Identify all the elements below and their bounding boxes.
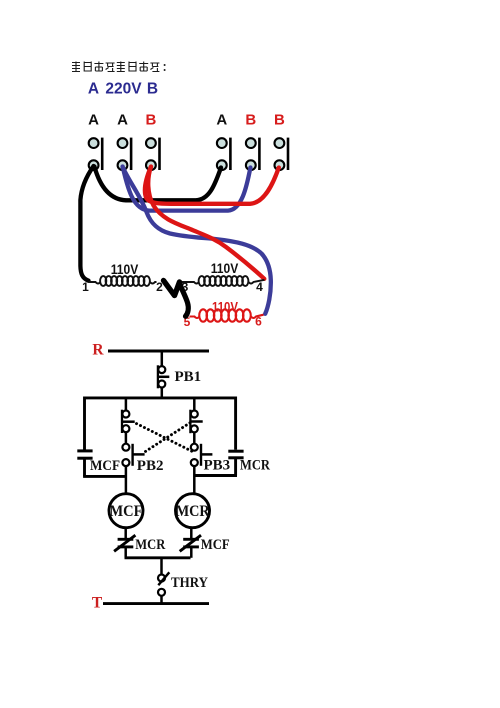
- wire T line: [103, 602, 209, 605]
- svg-text:MCF: MCF: [201, 537, 230, 553]
- wire PB2 to coil MCF: [125, 466, 128, 494]
- wire drop to THRY: [160, 558, 163, 574]
- contact MCF holding (capacitor style): [77, 397, 92, 477]
- svg-text:PB1: PB1: [175, 369, 202, 385]
- coil MCF: [109, 494, 143, 528]
- wire bottom right join: [194, 474, 237, 477]
- svg-text:MCR: MCR: [135, 537, 165, 553]
- wire red arc col3 to col6: [145, 167, 279, 204]
- wire THRY to T line: [160, 595, 163, 604]
- terminals: 6 columns of two circles + bar: [89, 138, 288, 171]
- svg-text:A: A: [88, 81, 99, 98]
- wire blue lower branch to 6: [123, 167, 271, 314]
- winding 3-4: [181, 276, 265, 286]
- contact MCR holding (capacitor style): [228, 397, 243, 476]
- wire PB3 to coil MCR: [193, 466, 196, 494]
- svg-text:4: 4: [256, 280, 263, 294]
- wire black left branch to 1: [80, 166, 93, 281]
- mechanical link dotted A: [137, 424, 193, 452]
- winding 1-2: [89, 276, 157, 286]
- svg-text:A: A: [117, 112, 128, 129]
- svg-text:MCR: MCR: [240, 458, 270, 474]
- svg-text:220V: 220V: [105, 81, 142, 98]
- svg-text:1: 1: [82, 280, 89, 294]
- wire y-connector 2-3-5: [164, 281, 180, 296]
- svg-text:A: A: [88, 112, 99, 129]
- wire black arc col1 to col4: [94, 167, 221, 201]
- wire R line: [108, 350, 209, 353]
- svg-text:6: 6: [255, 315, 262, 329]
- wire bottom left join: [83, 475, 126, 478]
- wire converge line: [125, 556, 191, 559]
- wire branch line: [85, 396, 236, 399]
- overload THRY: [158, 572, 169, 596]
- pushbutton PB2 (NC top + NO bottom): [122, 398, 145, 466]
- svg-text:B: B: [245, 112, 256, 129]
- svg-text:THRY: THRY: [171, 575, 208, 591]
- svg-text:110V: 110V: [212, 300, 238, 315]
- wire drop to PB1: [161, 351, 164, 367]
- title 單相電動機正反轉： (approximated CJK glyph strokes): [72, 62, 165, 72]
- svg-text:110V: 110V: [211, 261, 239, 276]
- coil MCR: [176, 494, 210, 528]
- svg-text:B: B: [147, 81, 158, 98]
- svg-text:PB3: PB3: [204, 458, 231, 474]
- wire blue arc col2 to col5: [123, 167, 251, 211]
- pushbutton PB1 (NC): [158, 365, 169, 388]
- svg-text:MCF: MCF: [110, 503, 143, 520]
- svg-text:A: A: [216, 112, 227, 129]
- svg-text:B: B: [274, 112, 285, 129]
- winding 5-6 red: [190, 309, 264, 321]
- contact MCF (NC b-contact) below MCR coil: [180, 528, 201, 558]
- svg-text:R: R: [92, 342, 104, 359]
- svg-text:MCF: MCF: [90, 458, 120, 474]
- pushbutton PB3 (NC top + NO bottom): [190, 398, 212, 466]
- svg-text:PB2: PB2: [137, 458, 164, 474]
- mechanical link dotted B: [144, 423, 191, 453]
- contact MCR (NC b-contact) below MCF coil: [114, 528, 135, 558]
- svg-text:T: T: [92, 595, 103, 612]
- svg-text:B: B: [145, 112, 156, 129]
- wire red lower branch to 4: [148, 167, 264, 279]
- svg-text:MCR: MCR: [176, 503, 211, 520]
- wire PB1 to branch: [161, 387, 164, 398]
- svg-text:110V: 110V: [111, 262, 139, 277]
